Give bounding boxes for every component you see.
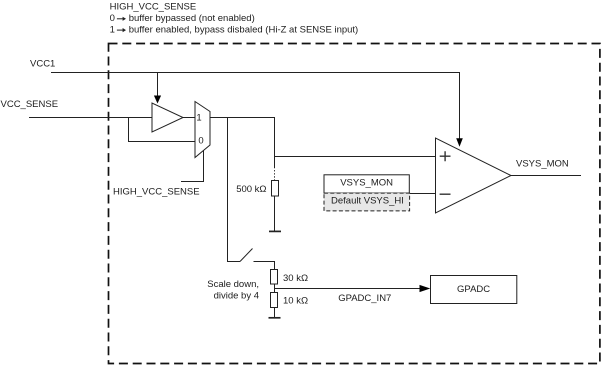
svg-text:VSYS_MON: VSYS_MON bbox=[340, 177, 393, 188]
svg-text:HIGH_VCC_SENSE: HIGH_VCC_SENSE bbox=[110, 1, 197, 12]
svg-text:Scale down,: Scale down, bbox=[207, 279, 259, 290]
svg-text:buffer enabled, bypass disbale: buffer enabled, bypass disbaled (Hi-Z at… bbox=[129, 25, 359, 36]
svg-text:VSYS_MON: VSYS_MON bbox=[516, 159, 569, 170]
svg-text:GPADC: GPADC bbox=[457, 284, 490, 295]
svg-text:1: 1 bbox=[110, 25, 115, 36]
svg-text:30 kΩ: 30 kΩ bbox=[283, 273, 308, 284]
svg-text:1: 1 bbox=[196, 112, 201, 123]
svg-text:HIGH_VCC_SENSE: HIGH_VCC_SENSE bbox=[113, 186, 200, 197]
svg-text:0: 0 bbox=[198, 136, 203, 147]
svg-text:500 kΩ: 500 kΩ bbox=[236, 184, 266, 195]
svg-text:divide by 4: divide by 4 bbox=[214, 290, 259, 301]
svg-text:Default VSYS_HI: Default VSYS_HI bbox=[331, 196, 404, 207]
svg-text:10 kΩ: 10 kΩ bbox=[283, 295, 308, 306]
svg-text:VCC1: VCC1 bbox=[30, 58, 55, 69]
svg-text:VCC_SENSE: VCC_SENSE bbox=[1, 99, 59, 110]
svg-text:0: 0 bbox=[110, 13, 115, 24]
svg-text:GPADC_IN7: GPADC_IN7 bbox=[338, 293, 391, 304]
svg-text:buffer bypassed (not enabled): buffer bypassed (not enabled) bbox=[129, 13, 255, 24]
